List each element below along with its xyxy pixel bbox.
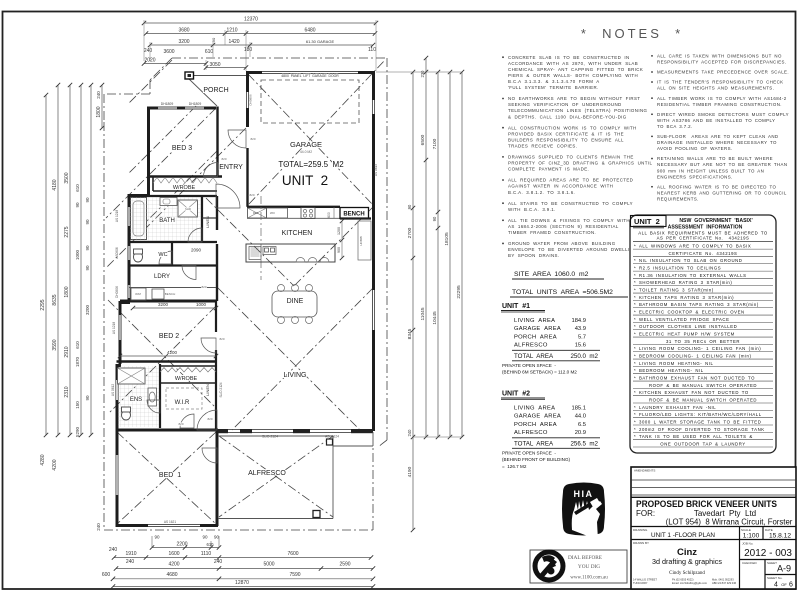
svg-text:1870: 1870 bbox=[75, 356, 80, 367]
wall garage right bbox=[372, 71, 375, 208]
svg-text:R2.5 INSULATION TO CEILINGS: R2.5 INSULATION TO CEILINGS bbox=[639, 265, 721, 270]
wall bath top y196 bbox=[129, 195, 217, 197]
window living right bbox=[373, 290, 375, 330]
top dim extension lines bbox=[143, 20, 145, 61]
door bed3 bbox=[204, 163, 218, 177]
svg-text:DH1809: DH1809 bbox=[161, 102, 174, 106]
svg-text:DH0906: DH0906 bbox=[115, 286, 119, 298]
svg-text:OF: OF bbox=[781, 582, 787, 587]
kitchen WO box bbox=[267, 208, 288, 218]
dial before you dig box bbox=[530, 550, 627, 583]
notes-right paragraph 2 bbox=[651, 71, 653, 73]
kitchen bench top row bbox=[247, 217, 340, 219]
wall wc bottom y265.5 bbox=[129, 264, 217, 266]
svg-text:(BEHIND FRONT OF BUILDING): (BEHIND FRONT OF BUILDING) bbox=[502, 457, 571, 462]
svg-text:ALL CONSTRUCTION WORK IS TO CO: ALL CONSTRUCTION WORK IS TO COMPLY WITH bbox=[508, 125, 637, 130]
svg-text:2275: 2275 bbox=[64, 226, 70, 237]
svg-text:BED 1: BED 1 bbox=[159, 472, 181, 479]
job row separator bbox=[740, 559, 797, 561]
svg-text:Mob. 0401 952293: Mob. 0401 952293 bbox=[712, 578, 734, 582]
bottom dimension row 240/1910/1600/1110/7600 bbox=[114, 557, 371, 559]
svg-text:WITH AS3786 AND BE INSTALLED T: WITH AS3786 AND BE INSTALLED TO COMPLY bbox=[657, 118, 775, 123]
svg-text:B.C.A. 3.8.1.2. TO 3.8.1.6.: B.C.A. 3.8.1.2. TO 3.8.1.6. bbox=[508, 190, 575, 195]
svg-text:11045: 11045 bbox=[420, 307, 426, 320]
svg-text:TIMBER FRAMED CONSTRUCTION.: TIMBER FRAMED CONSTRUCTION. bbox=[508, 230, 596, 235]
svg-text:3200: 3200 bbox=[85, 304, 90, 315]
svg-text:JOB No.: JOB No. bbox=[742, 542, 754, 546]
svg-text:820: 820 bbox=[201, 285, 206, 289]
door ldry bbox=[182, 266, 196, 280]
svg-text:110: 110 bbox=[368, 47, 376, 53]
svg-text:2020: 2020 bbox=[144, 58, 155, 64]
svg-text:4200: 4200 bbox=[168, 562, 179, 568]
svg-text:OUTDOOR CLOTHES LINE INSTALLED: OUTDOOR CLOTHES LINE INSTALLED bbox=[639, 324, 737, 329]
svg-text:BED 3: BED 3 bbox=[172, 145, 192, 152]
window ldry DH0906 bbox=[128, 285, 130, 298]
svg-text:610: 610 bbox=[207, 542, 215, 547]
svg-text:4800 PANEL LIFT GARAGE DOO: 4800 PANEL LIFT GARAGE DOOR bbox=[281, 74, 339, 78]
drawn by separator bbox=[631, 539, 796, 541]
notes-left paragraph 5 bbox=[502, 179, 504, 181]
svg-text:1200: 1200 bbox=[337, 227, 341, 235]
svg-text:240: 240 bbox=[96, 91, 101, 99]
wall bath bottom y242 bbox=[129, 241, 217, 243]
roof diagonal kitchen-dine V bbox=[206, 198, 294, 286]
dim 900+1200 kitchen bbox=[341, 221, 343, 258]
svg-text:3500: 3500 bbox=[64, 172, 70, 183]
wall bed3 top bbox=[147, 107, 216, 110]
wall entry left lower bbox=[246, 148, 248, 207]
living bottom pier 2 bbox=[240, 429, 252, 433]
wall bed3 right / entry bbox=[216, 107, 218, 177]
svg-text:AS 1624: AS 1624 bbox=[325, 435, 339, 439]
svg-text:LINEN: LINEN bbox=[205, 216, 210, 228]
svg-text:DRAINAGE INSTALLED WHERE NECES: DRAINAGE INSTALLED WHERE NECESSARY TO bbox=[657, 140, 777, 145]
wall wrobe2 box bbox=[160, 365, 217, 367]
svg-text:4180: 4180 bbox=[52, 179, 58, 190]
svg-text:B.C.A 3.1.3.3. & 3.1.3.4.70 FO: B.C.A 3.1.3.3. & 3.1.3.4.70 FORM A bbox=[508, 79, 600, 84]
dine table bbox=[272, 291, 317, 317]
unit2 table total bbox=[512, 437, 600, 439]
svg-text:90: 90 bbox=[214, 535, 220, 540]
svg-text:LIVING ROOM COOLING- 1 CEILING: LIVING ROOM COOLING- 1 CEILING FAN (min) bbox=[639, 346, 761, 351]
svg-text:COMPLETE PAYMENT IS MADE.: COMPLETE PAYMENT IS MADE. bbox=[508, 167, 589, 172]
svg-text:UNIT #2: UNIT #2 bbox=[502, 391, 530, 398]
svg-text:& DEPTHS. CALL 1100 DIAL-BEFOR: & DEPTHS. CALL 1100 DIAL-BEFORE-YOU-DIG bbox=[508, 114, 627, 119]
svg-text:ABN 24 847 329 046: ABN 24 847 329 046 bbox=[712, 581, 737, 585]
svg-text:W/ROBE: W/ROBE bbox=[175, 376, 198, 382]
basix header unit 2 bbox=[631, 216, 667, 227]
kitchen island bbox=[246, 244, 335, 262]
svg-text:SL/D 2124: SL/D 2124 bbox=[262, 435, 278, 439]
svg-text:ALL WINDOWS ARE TO COMPLY TO B: ALL WINDOWS ARE TO COMPLY TO BASIX bbox=[639, 244, 751, 249]
right dimension column line 450 bbox=[449, 72, 451, 437]
svg-text:PRIVATE OPEN SPACE -: PRIVATE OPEN SPACE - bbox=[502, 450, 556, 455]
sheet no separator bbox=[765, 574, 796, 576]
svg-text:CONCRETE SLAB IS TO BE CONSTRU: CONCRETE SLAB IS TO BE CONSTRUCTED IN bbox=[508, 55, 630, 60]
svg-text:900: 900 bbox=[337, 247, 341, 253]
top dimension 12370 bbox=[144, 22, 376, 24]
svg-text:SL/D 2124: SL/D 2124 bbox=[219, 382, 223, 397]
basix panel box bbox=[630, 215, 776, 453]
wall bed3 bottom y176.5 bbox=[148, 175, 222, 177]
svg-text:TRADES RECIEVE COPIES.: TRADES RECIEVE COPIES. bbox=[508, 143, 577, 148]
wall wrobe bottom y191 bbox=[153, 190, 217, 192]
svg-text:UNIT 2: UNIT 2 bbox=[282, 173, 328, 188]
svg-text:ENTRY: ENTRY bbox=[219, 164, 243, 171]
svg-text:GROUND WATER FROM ABOVE BUILDI: GROUND WATER FROM ABOVE BUILDING bbox=[508, 241, 616, 246]
notes-left paragraph 8 bbox=[502, 243, 504, 245]
svg-text:1800: 1800 bbox=[64, 286, 70, 297]
svg-text:www.1100.com.au: www.1100.com.au bbox=[570, 576, 608, 581]
section dash line vertical bbox=[260, 196, 262, 280]
svg-text:LIVING AREA: LIVING AREA bbox=[514, 318, 555, 324]
svg-text:4200: 4200 bbox=[52, 459, 58, 470]
wall bed1 top y430 bbox=[116, 429, 218, 432]
svg-text:TOTAL AREA: TOTAL AREA bbox=[514, 440, 554, 447]
svg-text:90: 90 bbox=[85, 197, 90, 203]
left dimension column bbox=[45, 95, 47, 435]
svg-text:SHR: SHR bbox=[185, 207, 191, 211]
svg-text:12870: 12870 bbox=[235, 580, 249, 586]
roof diagonal bed1 X bbox=[117, 432, 216, 524]
svg-text:5290: 5290 bbox=[75, 426, 80, 437]
roof diagonal left wing bbox=[106, 108, 216, 218]
svg-text:LINEN: LINEN bbox=[205, 384, 210, 396]
svg-text:KITCHEN: KITCHEN bbox=[282, 230, 313, 237]
svg-text:BENCH: BENCH bbox=[343, 212, 364, 218]
dial logo circle bbox=[535, 552, 563, 580]
svg-text:1000: 1000 bbox=[75, 249, 80, 260]
svg-text:900 mm IN HEIGHT UNLESS BUILT: 900 mm IN HEIGHT UNLESS BUILT TO AN bbox=[657, 168, 764, 173]
notes-right paragraph 5 bbox=[651, 113, 653, 115]
svg-text:PIERS & OUTER WALLS- BOTH COMP: PIERS & OUTER WALLS- BOTH COMPLYING WITH bbox=[508, 73, 638, 78]
svg-text:ELECTRIC HEAT PUMP H/W SYSTEM: ELECTRIC HEAT PUMP H/W SYSTEM bbox=[639, 331, 735, 336]
svg-text:90: 90 bbox=[211, 37, 216, 42]
wrobe1 zigzag rail bbox=[153, 178, 217, 184]
svg-text:BATHROOM EXHAUST FAN NOT DUCTE: BATHROOM EXHAUST FAN NOT DUCTED TO bbox=[639, 375, 755, 380]
svg-text:TOTAL AREA: TOTAL AREA bbox=[514, 353, 554, 360]
svg-text:6.5: 6.5 bbox=[578, 422, 586, 428]
job no cell bbox=[739, 540, 741, 590]
svg-text:31 TO 35 RECs OR BETTER: 31 TO 35 RECs OR BETTER bbox=[666, 339, 740, 344]
svg-text:4200: 4200 bbox=[167, 350, 178, 355]
bottom dimension row 600/4680/7590 bbox=[113, 578, 373, 580]
svg-text:BEDROOM HEATING- NIL: BEDROOM HEATING- NIL bbox=[639, 368, 704, 373]
svg-text:610: 610 bbox=[205, 49, 214, 55]
svg-text:BY SPOON DRAINS.: BY SPOON DRAINS. bbox=[508, 253, 559, 258]
svg-text:22295: 22295 bbox=[456, 285, 462, 299]
svg-text:AS 1621: AS 1621 bbox=[164, 520, 176, 524]
svg-text:LDRY: LDRY bbox=[154, 274, 170, 280]
svg-text:DRAWING: DRAWING bbox=[633, 528, 648, 532]
svg-text:15.6: 15.6 bbox=[575, 343, 586, 349]
svg-text:820: 820 bbox=[219, 337, 224, 341]
sheet cell bbox=[764, 560, 766, 590]
svg-text:ELECTRIC COOKTOP & ELECTRIC OV: ELECTRIC COOKTOP & ELECTRIC OVEN bbox=[639, 309, 745, 314]
door bed2 bbox=[201, 338, 216, 353]
svg-text:BUILDERS RESPONSIBILITY TO ENS: BUILDERS RESPONSIBILITY TO ENSURE ALL bbox=[508, 137, 624, 142]
svg-text:AS 0612: AS 0612 bbox=[111, 384, 115, 396]
svg-text:TOILET RATING 3 STAR(min): TOILET RATING 3 STAR(min) bbox=[639, 287, 714, 292]
svg-text:820: 820 bbox=[178, 422, 183, 426]
svg-text:DH0906: DH0906 bbox=[249, 94, 253, 105]
svg-text:REQUIREMENTS.: REQUIREMENTS. bbox=[657, 196, 699, 201]
svg-text:ROOF & BE MANUAL SWITCH OPERAT: ROOF & BE MANUAL SWITCH OPERATED bbox=[649, 383, 757, 388]
svg-text:GARAGE AREA: GARAGE AREA bbox=[514, 326, 561, 332]
svg-text:RESPONSIBILITY ACCEPTED FOR DI: RESPONSIBILITY ACCEPTED FOR DISCREPANCIE… bbox=[657, 60, 786, 65]
dim 4200 bed2 bbox=[120, 355, 216, 357]
svg-text:200m2 OF ROOF DIVERTED TO STOR: 200m2 OF ROOF DIVERTED TO STORAGE TANK bbox=[639, 427, 765, 432]
notes-right paragraph 8 bbox=[651, 186, 653, 188]
svg-text:ROOF & BE MANUAL SWITCH OPERAT: ROOF & BE MANUAL SWITCH OPERATED bbox=[649, 397, 757, 402]
svg-text:14 WALLIS STREET: 14 WALLIS STREET bbox=[633, 578, 657, 582]
door wir bbox=[180, 414, 194, 428]
svg-text:PRIVATE OPEN SPACE -: PRIVATE OPEN SPACE - bbox=[502, 363, 556, 368]
svg-text:4190: 4190 bbox=[407, 466, 413, 477]
svg-text:3050: 3050 bbox=[209, 62, 220, 68]
svg-text:AGAINST WATER IN ACCORDANCE WI: AGAINST WATER IN ACCORDANCE WITH bbox=[508, 184, 613, 189]
svg-text:W.I.R: W.I.R bbox=[175, 400, 190, 406]
svg-text:DINE: DINE bbox=[287, 298, 304, 305]
wall living bottom windows/sliders bbox=[218, 429, 373, 431]
svg-text:UNIT #1: UNIT #1 bbox=[502, 303, 530, 310]
svg-text:ALL TIMBER WORK IS TO COMPLY W: ALL TIMBER WORK IS TO COMPLY WITH AS1684… bbox=[657, 96, 787, 101]
alfresco slab bbox=[218, 435, 333, 437]
svg-text:DH1809: DH1809 bbox=[189, 102, 202, 106]
svg-text:6: 6 bbox=[789, 582, 793, 589]
bottom dimension row 240/4200/240/5000/2590 bbox=[116, 568, 373, 570]
svg-text:90: 90 bbox=[85, 245, 90, 251]
notes-left paragraph 3 bbox=[502, 127, 504, 129]
svg-text:2590: 2590 bbox=[339, 562, 350, 568]
svg-text:NIL INSULATION TO SLAB ON GROU: NIL INSULATION TO SLAB ON GROUND bbox=[639, 258, 742, 263]
svg-text:PORCH: PORCH bbox=[203, 87, 228, 94]
svg-text:6480: 6480 bbox=[304, 28, 315, 34]
svg-text:90: 90 bbox=[75, 202, 80, 208]
wc toilet bbox=[134, 252, 143, 262]
svg-text:610: 610 bbox=[75, 184, 80, 192]
svg-text:ALL REQUIRED AREAS ARE TO BE P: ALL REQUIRED AREAS ARE TO BE PROTECTED bbox=[508, 178, 633, 183]
svg-text:AS PER CERTIFICATE No. 434219: AS PER CERTIFICATE No. 434219S bbox=[657, 236, 750, 241]
notes-left paragraph 6 bbox=[502, 202, 504, 204]
svg-text:256.5 m2: 256.5 m2 bbox=[570, 440, 598, 447]
ldry bench & wm bbox=[131, 288, 146, 300]
svg-text:TO BCA 3.7.2.: TO BCA 3.7.2. bbox=[657, 124, 693, 129]
door garage-kitchen bbox=[216, 184, 240, 208]
porch post bbox=[185, 72, 194, 79]
svg-text:ALL TIE DOWNS & FIXINGS TO COM: ALL TIE DOWNS & FIXINGS TO COMPLY WITH bbox=[508, 218, 630, 223]
svg-text:DIRECT WIRED SMOKE DETECTORS M: DIRECT WIRED SMOKE DETECTORS MUST COMPLY bbox=[657, 112, 789, 117]
svg-text:820: 820 bbox=[221, 157, 226, 161]
svg-text:12370: 12370 bbox=[244, 17, 258, 23]
svg-text:CHECKED: CHECKED bbox=[742, 561, 758, 565]
wall ens/bed1 left bbox=[116, 364, 119, 526]
living bottom pier 4 bbox=[351, 429, 373, 433]
svg-text:DRAWINGS SUPPLIED TO CLIENTS R: DRAWINGS SUPPLIED TO CLIENTS REMAIN THE bbox=[508, 155, 634, 160]
svg-text:600: 600 bbox=[102, 572, 111, 578]
door bed1 bbox=[202, 448, 217, 463]
wir shelves bbox=[166, 388, 202, 409]
svg-text:WELL VENTILATED FRIDGE SPACE: WELL VENTILATED FRIDGE SPACE bbox=[639, 317, 730, 322]
svg-text:10445: 10445 bbox=[432, 311, 438, 325]
kitchen cooktop bbox=[301, 208, 315, 219]
svg-text:600: 600 bbox=[327, 212, 331, 218]
notes-left paragraph 4 bbox=[502, 156, 504, 158]
svg-text:ALL STAIRS TO BE CONSTRUCTED T: ALL STAIRS TO BE CONSTRUCTED TO COMPLY bbox=[508, 201, 633, 206]
svg-text:LIVING AREA: LIVING AREA bbox=[514, 406, 555, 412]
wall ldry bench y287 bbox=[129, 287, 216, 289]
svg-text:LIVING: LIVING bbox=[284, 372, 307, 379]
roofline right bbox=[386, 58, 388, 440]
wall wir/linen right x216 301..431 bbox=[215, 301, 217, 332]
svg-text:CERTIFICATE No. 434219S: CERTIFICATE No. 434219S bbox=[669, 251, 738, 256]
date cell bbox=[762, 527, 764, 540]
svg-text:43.9: 43.9 bbox=[575, 326, 586, 332]
svg-text:1910: 1910 bbox=[125, 551, 136, 557]
amendments rule 2 bbox=[631, 487, 796, 489]
notes-right paragraph 4 bbox=[651, 97, 653, 99]
drawing row separator bbox=[631, 526, 796, 528]
svg-text:3200: 3200 bbox=[178, 39, 189, 45]
svg-text:CHEMICAL SPRAY- ANT CAPPING FI: CHEMICAL SPRAY- ANT CAPPING FITTED TO BR… bbox=[508, 67, 643, 72]
wall bed1 right x217 bbox=[216, 430, 219, 526]
svg-text:240: 240 bbox=[407, 429, 412, 437]
door ens bbox=[147, 400, 160, 413]
top dimension row 3680/1210/6480 bbox=[146, 33, 375, 35]
svg-text:BENCH: BENCH bbox=[165, 292, 176, 296]
garage door dashed inner rect bbox=[261, 80, 359, 123]
bath tub bbox=[131, 198, 147, 240]
svg-text:1600: 1600 bbox=[168, 551, 179, 557]
svg-text:W/ROBE: W/ROBE bbox=[173, 185, 196, 191]
wall porch/garage left upper bbox=[246, 71, 249, 127]
svg-text:SHOWERHEAD RATING 3 STAR(min): SHOWERHEAD RATING 3 STAR(min) bbox=[639, 280, 732, 285]
svg-text:230: 230 bbox=[420, 70, 425, 78]
svg-text:2310: 2310 bbox=[64, 386, 70, 397]
wall wc right x172 bbox=[171, 242, 173, 266]
wall living right x373 264..431 bbox=[372, 264, 375, 431]
notes-right paragraph 1 bbox=[651, 55, 653, 57]
svg-text:8635: 8635 bbox=[52, 294, 58, 305]
island stools bbox=[296, 258, 305, 263]
svg-text:90: 90 bbox=[202, 535, 208, 540]
svg-text:WITH B.C.A. 3.9.1.: WITH B.C.A. 3.9.1. bbox=[508, 207, 556, 212]
svg-text:NEAREST KERB AND GUTTERING OR: NEAREST KERB AND GUTTERING OR TO COUNCIL bbox=[657, 190, 787, 195]
top dimension row 3200/1420/garage bbox=[150, 44, 373, 46]
svg-text:90: 90 bbox=[407, 204, 412, 209]
svg-text:SEEKING VERIFICATION OF UNDERG: SEEKING VERIFICATION OF UNDERGROUND bbox=[508, 102, 622, 107]
HIA logo bbox=[562, 483, 605, 541]
wall bed3 left bbox=[147, 107, 150, 195]
svg-text:3680: 3680 bbox=[178, 28, 189, 34]
svg-text:TELECOMMUNICATION LINES (TELST: TELECOMMUNICATION LINES (TELSTRA) POSITI… bbox=[508, 108, 648, 113]
amendments rule 3 bbox=[631, 494, 796, 496]
svg-text:IT IS THE TENDER'S RESPONSIBIL: IT IS THE TENDER'S RESPONSIBILITY TO CHE… bbox=[657, 80, 783, 85]
svg-text:AS 1684.2-2006 (SECTION 9) RES: AS 1684.2-2006 (SECTION 9) RESIDENTIAL bbox=[508, 224, 619, 229]
svg-text:PORCH AREA: PORCH AREA bbox=[514, 334, 557, 340]
svg-text:1800: 1800 bbox=[96, 106, 102, 117]
svg-text:AS0906: AS0906 bbox=[115, 247, 119, 259]
svg-text:AMENDMENTS: AMENDMENTS bbox=[634, 469, 655, 473]
window garage right bbox=[373, 100, 375, 114]
svg-text:2295: 2295 bbox=[40, 299, 46, 310]
svg-text:W/M: W/M bbox=[135, 292, 141, 296]
wall bed2 bottom y361.5 bbox=[117, 360, 218, 363]
svg-text:44.0: 44.0 bbox=[575, 414, 586, 420]
notes-right paragraph 6 bbox=[651, 136, 653, 138]
roof diagonal bed2 wing bbox=[108, 306, 216, 414]
svg-text:5.7: 5.7 bbox=[578, 334, 586, 340]
svg-text:AS 1218: AS 1218 bbox=[112, 322, 116, 334]
svg-text:SHEET: SHEET bbox=[767, 561, 777, 565]
svg-text:TOTAL UNITS AREA =506.5M2: TOTAL UNITS AREA =506.5M2 bbox=[512, 289, 613, 296]
svg-text:185.1: 185.1 bbox=[571, 406, 586, 412]
svg-text:AS 0615: AS 0615 bbox=[374, 164, 378, 176]
svg-text:PROPERTY OF CINZ_3D DRAFTING &: PROPERTY OF CINZ_3D DRAFTING & GRAPHICS … bbox=[508, 161, 652, 166]
svg-text:UNIT 2: UNIT 2 bbox=[634, 217, 660, 226]
svg-text:3d drafting & graphics: 3d drafting & graphics bbox=[652, 557, 722, 566]
svg-text:KITCHEN EXHAUST FAN NOT DUCTED: KITCHEN EXHAUST FAN NOT DUCTED TO bbox=[639, 390, 749, 395]
porch slab edge bbox=[189, 75, 246, 77]
right dimension column line 462 bbox=[461, 72, 463, 437]
svg-text:MEASUREMENTS TAKE PRECEDENCE O: MEASUREMENTS TAKE PRECEDENCE OVER SCALE. bbox=[657, 70, 789, 75]
right dimension column line 413 bbox=[412, 72, 414, 437]
svg-text:(LOT 954) 8 Wirrana Circuit,: (LOT 954) 8 Wirrana Circuit, Forster bbox=[666, 518, 793, 527]
svg-text:180: 180 bbox=[244, 47, 253, 53]
svg-text:4280: 4280 bbox=[40, 454, 46, 465]
notes-left paragraph 1 bbox=[502, 56, 504, 58]
svg-text:RESIDENTIAL TIMBER FRAMING CON: RESIDENTIAL TIMBER FRAMING CONSTRUCTION. bbox=[657, 102, 782, 107]
wall bath wing left bbox=[128, 194, 131, 301]
wall bed1 bottom bbox=[116, 524, 219, 527]
svg-text:ALL CARE IS TAKEN WITH DIMENSI: ALL CARE IS TAKEN WITH DIMENSIONS BUT NO bbox=[657, 54, 782, 59]
svg-text:15.8.12: 15.8.12 bbox=[769, 533, 791, 540]
svg-text:20.9: 20.9 bbox=[575, 430, 586, 436]
alfresco posts bbox=[327, 439, 333, 445]
svg-text:UNIT 1 -FLOOR PLAN: UNIT 1 -FLOOR PLAN bbox=[651, 532, 715, 539]
svg-text:Cindy Schilpzand: Cindy Schilpzand bbox=[669, 571, 705, 576]
bench label box bbox=[340, 208, 369, 219]
wall linen left x202 bbox=[201, 196, 203, 242]
wall kitchen left x216 196..301 bbox=[216, 196, 218, 230]
svg-text:PROPOSED BRICK VENEER UNITS: PROPOSED BRICK VENEER UNITS bbox=[636, 499, 777, 509]
svg-text:820: 820 bbox=[250, 137, 255, 141]
window bed1 AS1621 bbox=[148, 525, 200, 527]
svg-text:610: 610 bbox=[75, 341, 80, 349]
kitchen hob strip bbox=[358, 221, 371, 260]
svg-text:BED 2: BED 2 bbox=[159, 333, 179, 340]
svg-text:R1.36 INSULATION TO EXTERNAL W: R1.36 INSULATION TO EXTERNAL WALLS bbox=[639, 273, 747, 278]
svg-text:WO: WO bbox=[270, 211, 276, 215]
svg-text:18105: 18105 bbox=[444, 232, 450, 246]
unit1 table total bbox=[512, 349, 600, 351]
top dimension 2020 bbox=[144, 63, 206, 65]
svg-text:1110: 1110 bbox=[201, 551, 212, 557]
bath tiling bbox=[130, 197, 201, 241]
living bottom pier 3 bbox=[293, 429, 310, 433]
shower bath bbox=[178, 200, 198, 217]
wall bed2 top y301 bbox=[120, 300, 216, 303]
svg-text:PORCH AREA: PORCH AREA bbox=[514, 422, 557, 428]
svg-text:Email: cinz3drafting@gds.com: Email: cinz3drafting@gds.com bbox=[672, 581, 707, 585]
svg-text:Ph.(02 6555 4522): Ph.(02 6555 4522) bbox=[672, 578, 694, 582]
svg-text:7590: 7590 bbox=[289, 572, 300, 578]
svg-text:240: 240 bbox=[126, 559, 135, 565]
ens vanity bbox=[148, 388, 157, 406]
amendments rule 1 bbox=[631, 479, 796, 481]
right dimension column line 426 bbox=[425, 58, 427, 437]
